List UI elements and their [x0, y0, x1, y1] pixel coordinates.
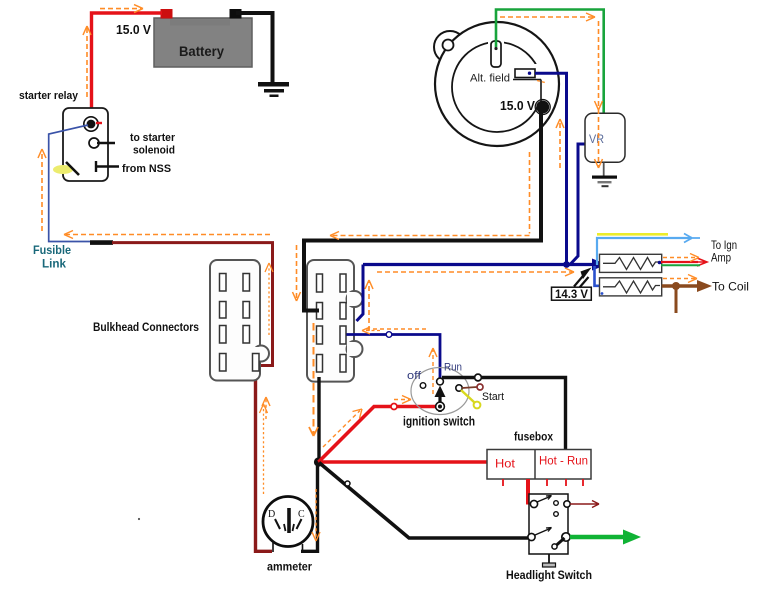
- wire battery negative to ground (black): [236, 13, 273, 82]
- fusible link element (black segment): [90, 240, 113, 245]
- svg-text:Run: Run: [444, 362, 462, 374]
- flow arrow down into connector 2 (left): [296, 245, 298, 299]
- svg-text:To Coil: To Coil: [712, 280, 749, 294]
- wire headlight output (green arrow): [570, 535, 624, 540]
- svg-text:ammeter: ammeter: [267, 560, 312, 574]
- current flow arrows (orange dashed): [38, 5, 699, 541]
- inline connector on headlight feed: [345, 481, 350, 486]
- svg-text:Amp: Amp: [711, 253, 731, 265]
- wire VR to junction (navy): [571, 144, 587, 264]
- fusebox body: [487, 450, 591, 480]
- alternator field chord lines: [513, 80, 541, 102]
- wire alternator field to junction (navy): [535, 73, 568, 264]
- flow arrow up to relay: [41, 151, 43, 231]
- starter relay body: [63, 108, 108, 181]
- arrowhead to coil (brown): [697, 280, 712, 292]
- svg-text:Fusible: Fusible: [33, 243, 71, 257]
- ignition switch brown ring terminal: [477, 384, 483, 390]
- node brown junction: [672, 282, 680, 290]
- headlight switch bottom-left terminal: [528, 533, 535, 540]
- flow arrow to coil: [663, 278, 695, 280]
- svg-text:from NSS: from NSS: [122, 163, 171, 175]
- svg-text:15.0 V: 15.0 V: [500, 99, 536, 113]
- flow arrow up battery feed: [86, 28, 88, 97]
- wire junction to fusebox Hot (red): [319, 460, 490, 463]
- alternator ear hole: [443, 40, 454, 51]
- svg-text:14.3 V: 14.3 V: [555, 289, 588, 301]
- flow arrow down through connector 2 (long dash): [313, 323, 315, 434]
- headlight switch bottom lever: [535, 529, 550, 536]
- wire alternator output to bulkhead connector 2 (black): [304, 108, 541, 311]
- headlight switch body: [529, 494, 568, 554]
- flow arrow toward fusible link (left): [66, 234, 270, 236]
- headlight switch closed contact lever: [556, 538, 565, 546]
- flow arrow up field wire: [559, 121, 561, 168]
- ground (VR): [592, 163, 617, 188]
- svg-text:To Ign: To Ign: [711, 240, 737, 252]
- ground stub (headlight switch): [548, 554, 550, 563]
- node resistor feed arrow (navy): [592, 259, 607, 271]
- wire fusible link to bulkhead connector 1 (dark red): [112, 243, 273, 366]
- wire fusebox to headlight switch (red): [528, 479, 532, 503]
- resistor R1 element: [603, 258, 660, 270]
- wire bus down into bulkhead connector 2 (navy): [357, 265, 364, 322]
- wire junction to ballast resistor 2 (royal blue): [595, 266, 605, 286]
- flow arrow alternator top to VR: [500, 16, 593, 18]
- bulkhead connector 1 pins: [220, 274, 260, 372]
- 14.3 V callout arrows: [574, 273, 586, 287]
- wire junction to ignition switch (red): [319, 407, 438, 463]
- battery negative terminal: [230, 9, 242, 19]
- ignition switch body: [411, 368, 469, 415]
- VR box: [585, 113, 625, 162]
- wire ignition switch to fusebox HotRun (black): [442, 378, 566, 450]
- node main junction (black dot): [314, 457, 323, 466]
- ammeter scale ticks: [275, 519, 280, 529]
- alternator mounting ear: [434, 31, 466, 63]
- inline connector symbol on Run wire: [386, 332, 392, 338]
- flow arrow up Run wire: [432, 350, 434, 394]
- ballast resistor R2 box: [600, 278, 662, 296]
- flow arrow up toward connector 1 (ammeter wire): [263, 406, 265, 494]
- svg-text:Start: Start: [482, 391, 504, 403]
- ammeter terminal tabs: [273, 542, 303, 552]
- wire junction to headlight switch (black): [319, 463, 530, 539]
- battery: [154, 18, 252, 67]
- ignition switch acc terminal: [456, 385, 462, 391]
- svg-text:Bulkhead Connectors: Bulkhead Connectors: [93, 322, 199, 334]
- svg-text:Hot: Hot: [495, 457, 516, 471]
- wire headlight tap (dark red arrow): [570, 501, 599, 508]
- wire main feed bus (navy horizontal): [363, 263, 599, 266]
- headlight switch mid contact: [554, 512, 559, 517]
- flow arrow into ignition switch: [394, 399, 409, 401]
- flow dashes near connector 2 navy exit: [364, 330, 380, 332]
- svg-text:Alt. field: Alt. field: [470, 73, 510, 85]
- headlight switch top lever: [537, 497, 550, 503]
- wire brown drop: [675, 286, 678, 313]
- svg-text:ignition switch: ignition switch: [403, 415, 475, 429]
- headlight switch top contact: [554, 501, 559, 506]
- node navy junction: [563, 261, 570, 268]
- wire resistor R1 output (red with arrow): [661, 261, 698, 263]
- flow arrow alternator output to connector 2: [332, 152, 530, 236]
- svg-text:C: C: [298, 509, 305, 520]
- headlight switch bottom-right terminal: [562, 533, 570, 541]
- flow arrow down to ammeter (right): [315, 489, 317, 539]
- ignition switch battery terminal (bullseye): [436, 402, 445, 411]
- svg-text:D: D: [268, 509, 275, 520]
- headlight switch top-right terminal: [564, 501, 570, 507]
- flow arrow along red ignition feed: [323, 411, 360, 448]
- bulkhead connector 2 pins: [317, 274, 347, 372]
- wire resistor R1 output (green): [661, 264, 700, 266]
- resistor R2 element: [603, 281, 660, 293]
- svg-text:Battery: Battery: [179, 43, 224, 59]
- alternator stator terminal slot: [491, 41, 501, 67]
- wire bulkhead connector 2 to ignition switch Run (navy): [347, 335, 441, 379]
- relay contact lever with yellow highlight: [53, 162, 79, 175]
- svg-text:Headlight Switch: Headlight Switch: [506, 568, 592, 582]
- svg-text:fusebox: fusebox: [514, 430, 553, 444]
- inline connector on ignition feed (red circle): [391, 404, 397, 410]
- wire junction to ign/amp (light blue): [597, 238, 692, 265]
- alternator case: [435, 22, 559, 146]
- wire to ign amp (yellow overlay): [597, 233, 668, 236]
- wire starter relay to fusible link (blue): [49, 125, 92, 242]
- starter relay solenoid terminal: [89, 138, 115, 148]
- svg-text:solenoid: solenoid: [133, 145, 175, 157]
- flow arrow up beside connector 1: [268, 266, 270, 335]
- wire resistor R2 output to coil (brown): [662, 284, 699, 287]
- ignition switch selector arrow: [438, 394, 441, 412]
- bulkhead connector 2 body: [307, 260, 363, 382]
- ignition switch start wire (yellow): [461, 390, 475, 403]
- alternator inner body: [452, 42, 542, 132]
- wire alternator to VR (green): [496, 10, 604, 130]
- flow dashes toward Run wire: [366, 328, 428, 330]
- svg-text:to starter: to starter: [130, 132, 176, 144]
- flow arrow to ign amp: [663, 257, 697, 259]
- alternator field terminal: [515, 69, 535, 78]
- arrowhead to ign amp (light blue): [684, 234, 700, 243]
- inline terminal on black ignition wire: [475, 374, 482, 381]
- alternator output terminal: [535, 100, 550, 115]
- starter relay NSS terminal: [96, 161, 119, 172]
- ballast resistor R1 box: [600, 254, 662, 272]
- ignition switch Run terminal: [437, 378, 444, 385]
- wire battery positive to starter relay (red): [92, 13, 163, 119]
- flow arrow along navy bus (right): [377, 271, 572, 273]
- svg-text:off: off: [407, 370, 422, 382]
- ground (battery): [258, 82, 289, 97]
- svg-text:15.0 V: 15.0 V: [116, 22, 151, 37]
- 14.3 V callout box: [552, 287, 592, 300]
- fusebox terminals (red ticks): [503, 479, 583, 486]
- svg-text:Hot - Run: Hot - Run: [539, 456, 588, 468]
- starter relay battery terminal: [84, 117, 102, 131]
- stray dot: [138, 518, 140, 520]
- wire junction to ammeter (black): [301, 462, 318, 551]
- svg-text:Link: Link: [42, 257, 66, 271]
- flow arrow up right of connector 2: [368, 282, 370, 331]
- flow arrow along battery positive top: [100, 8, 141, 10]
- svg-text:VR: VR: [589, 132, 604, 146]
- ammeter body: [263, 497, 313, 547]
- flow arrow up below connector 1: [265, 399, 267, 419]
- bulkhead connector 1 body: [210, 260, 269, 381]
- ignition switch off terminal: [420, 383, 426, 389]
- svg-text:starter relay: starter relay: [19, 90, 79, 102]
- wire bulkhead connector 2 to junction (black): [317, 377, 320, 462]
- ignition switch start terminal (yellow ring): [474, 402, 481, 409]
- ignition switch brown jumper: [462, 387, 477, 388]
- headlight switch top-left terminal: [530, 500, 537, 507]
- ammeter needle: [287, 508, 291, 533]
- wire bulkhead connector 1 to ammeter (dark red): [256, 371, 273, 551]
- battery positive terminal: [161, 9, 173, 19]
